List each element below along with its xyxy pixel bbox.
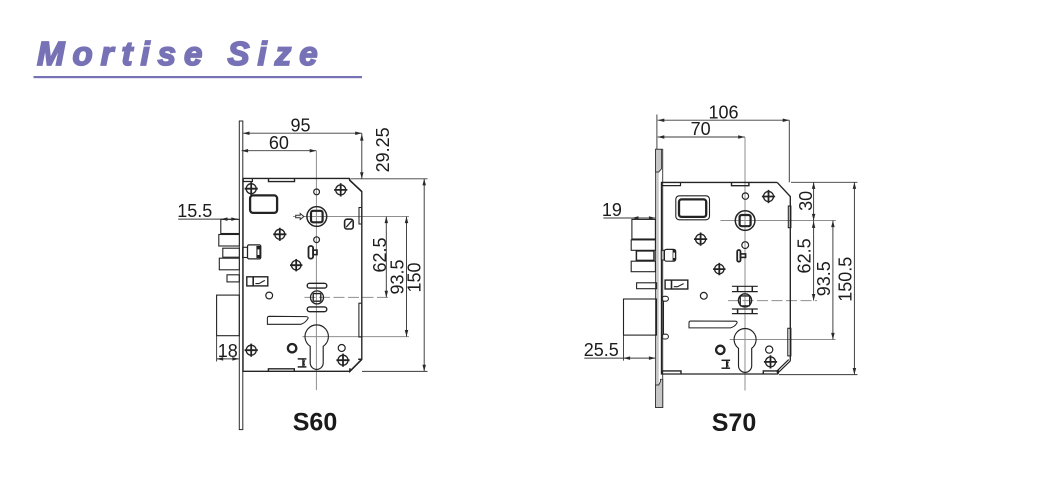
chamfer strip bottom-right S70 [777, 360, 790, 374]
top tab left S70 [662, 183, 681, 186]
euro cylinder S60 [305, 325, 328, 370]
follower S70 [732, 286, 758, 313]
lever blade S70 [689, 321, 737, 328]
bottom tab left S70 [662, 371, 681, 374]
ext deadbolt S60 [216, 336, 218, 362]
svg-text:15.5: 15.5 [177, 201, 212, 221]
centerline spindle S60 [293, 216, 409, 218]
screw mid-low S60 [290, 259, 302, 271]
P part S60 [309, 246, 318, 259]
arrows dim 18 S60 [217, 357, 239, 361]
latch head in body S70 [661, 249, 675, 261]
deadbolt S70 [624, 299, 657, 335]
label S70 [712, 409, 756, 437]
circle below spindle S60 [314, 237, 320, 243]
arrows dim 15.5 S60 [221, 217, 238, 221]
faceplate S60 [239, 121, 243, 430]
bracket near cylinder S70 [722, 360, 731, 368]
title underline [34, 76, 363, 78]
arrows dim 150.5 S70 [853, 182, 857, 374]
svg-text:70: 70 [691, 119, 711, 139]
right strip lower S70 [788, 328, 791, 356]
top tab center S60 [269, 179, 295, 182]
circle right-low S70 [766, 346, 773, 353]
body S70 [662, 182, 779, 374]
circle above spindle S60 [314, 189, 320, 195]
value label 60 S60 [269, 133, 289, 153]
dim 106 [658, 119, 790, 121]
svg-text:106: 106 [708, 102, 738, 122]
dim 60 [242, 150, 317, 152]
svg-text:62.5: 62.5 [795, 238, 815, 273]
thin plate S60 [227, 275, 239, 282]
dim 29.25 vertical [361, 133, 363, 179]
centerline cylinder S60 [302, 336, 409, 338]
arrows dim 93.5 S70 [831, 221, 835, 340]
bottom tab right S70 [763, 371, 778, 374]
top tab left S60 [243, 179, 252, 182]
latch bolt S70 [631, 219, 655, 271]
svg-text:30: 30 [796, 191, 816, 211]
ext right-edge top S70 [788, 120, 790, 182]
screw mid-left S60 [273, 228, 286, 241]
S70 dimensions [584, 115, 857, 375]
arrows dim 106 S70 [658, 118, 790, 122]
window rect S60 [250, 195, 277, 213]
dim 150 S60 [423, 179, 425, 372]
centerline spindle S70 [721, 220, 837, 222]
deadbolt guide pins S70 [662, 296, 669, 339]
screw mid-low S70 [713, 263, 725, 275]
svg-text:60: 60 [269, 133, 289, 153]
screw top-left S60 [245, 182, 258, 195]
screw bottom-left S60 [245, 344, 258, 357]
screw bottom-right S60 [336, 354, 349, 367]
svg-text:150: 150 [404, 262, 424, 292]
thick circle S60 [288, 344, 296, 352]
centerline vertical S70 [744, 137, 746, 390]
ext faceplate top S70 [656, 115, 658, 150]
dim 62.5 S60 [385, 217, 387, 298]
value label 29.25 S60 [373, 127, 393, 172]
deadbolt S60 [217, 295, 240, 336]
arrows dim 150 S60 [422, 179, 426, 372]
arrows dim 19 S70 [632, 216, 656, 220]
value label 93.5 S70 [814, 261, 834, 296]
ext deadbolt S70 [623, 336, 625, 361]
follower S60 [307, 283, 327, 311]
centerline cylinder S70 [730, 339, 836, 341]
dim 18 [217, 358, 239, 360]
arrows dim 62.5 S70 [812, 221, 816, 300]
centerline follower S60 [305, 296, 391, 298]
value label 62.5 S70 [795, 238, 815, 273]
value label 95 S60 [290, 115, 310, 135]
label S60 [293, 408, 337, 436]
arrows dim 60 S60 [242, 149, 317, 153]
thin plate S70 [637, 283, 657, 289]
value label 150 S60 [404, 262, 424, 292]
screw top-right S60 [334, 183, 347, 196]
spindle S70 [735, 211, 755, 231]
window rect S70 [676, 196, 710, 220]
svg-text:18: 18 [218, 341, 238, 361]
screw top-right S70 [762, 190, 775, 203]
svg-text:S70: S70 [712, 409, 756, 437]
svg-text:Mortise Size: Mortise Size [37, 35, 326, 72]
ext body-bottom right S60 [362, 370, 428, 372]
svg-text:29.25: 29.25 [373, 127, 393, 172]
ext body-top right S60 [351, 178, 428, 180]
faceplate S70 [656, 149, 663, 407]
svg-text:93.5: 93.5 [814, 261, 834, 296]
value label 93.5 S60 [388, 259, 408, 294]
dim 15.5 [178, 218, 238, 220]
value label 18 S60 [218, 341, 238, 361]
value label 19 S70 [602, 200, 622, 220]
arrows dim 30 S70 [812, 182, 816, 220]
bottom tab S60 [268, 369, 294, 371]
arrows dim 95 S60 [243, 131, 362, 135]
thick circle S70 [716, 346, 724, 354]
value label 62.5 S60 [370, 237, 390, 272]
latch head in body S60 [243, 245, 261, 259]
S60 dimensions [178, 133, 427, 371]
latch bolt S60 [219, 219, 240, 269]
centerline follower S70 [728, 300, 817, 302]
arrows dim 25.5 S70 [624, 356, 656, 360]
bracket near cylinder S60 [298, 359, 307, 367]
dim 62.5 S70 [813, 221, 815, 301]
clip right S60 [345, 219, 354, 229]
svg-text:150.5: 150.5 [836, 257, 856, 302]
dim 150.5 S70 [853, 182, 855, 374]
dim 93.5 S70 [832, 221, 834, 340]
dim 93.5 S60 [406, 217, 408, 337]
arrows dim 70 S70 [658, 135, 745, 139]
value label 25.5 S70 [584, 340, 619, 360]
right strip upper S70 [788, 206, 791, 228]
circle below spindle S70 [742, 242, 749, 249]
arrows dim 62.5 S60 [385, 217, 389, 298]
dim 95 [243, 132, 362, 134]
chamfer hook top-right [349, 178, 362, 191]
spindle S60 [307, 207, 327, 227]
arrows dim 29.25 S60 [360, 134, 364, 179]
dim 25.5 [584, 357, 655, 359]
svg-text:S60: S60 [293, 408, 337, 436]
value label 70 S70 [691, 119, 711, 139]
svg-text:95: 95 [290, 115, 310, 135]
P part S70 [737, 250, 745, 262]
right strip upper S60 [359, 208, 362, 225]
body S60 [243, 178, 362, 371]
circle above spindle S70 [742, 193, 748, 199]
chamfer hook bottom-right [350, 359, 362, 371]
lever blade S60 [267, 316, 308, 324]
value label 106 S70 [708, 102, 738, 122]
arrow at spindle S60 [296, 213, 304, 219]
flat clip S70 [665, 280, 688, 289]
ext body-bottom right S70 [779, 374, 858, 376]
value label 15.5 S60 [177, 201, 212, 221]
flat clip S60 [247, 277, 268, 286]
title text [37, 35, 326, 72]
dim 70 [658, 136, 745, 138]
screw mid-left S70 [694, 233, 707, 246]
right strip lower S60 [359, 303, 362, 337]
circle right-low S60 [338, 345, 345, 352]
dim 30 S70 [813, 182, 815, 220]
circle left S70 [700, 292, 707, 299]
top tab center S70 [732, 183, 749, 186]
circle left S60 [266, 292, 273, 299]
euro cylinder S70 [734, 329, 756, 373]
ext body-top right S70 [791, 181, 858, 183]
arrows dim 93.5 S60 [405, 217, 409, 337]
screw bottom-right S70 [764, 355, 777, 368]
dim 19 [603, 217, 655, 219]
centerline vertical S60 [315, 151, 317, 390]
svg-text:25.5: 25.5 [584, 340, 619, 360]
svg-text:19: 19 [602, 200, 622, 220]
value label 150.5 S70 [836, 257, 856, 302]
value label 30 S70 [796, 191, 816, 211]
